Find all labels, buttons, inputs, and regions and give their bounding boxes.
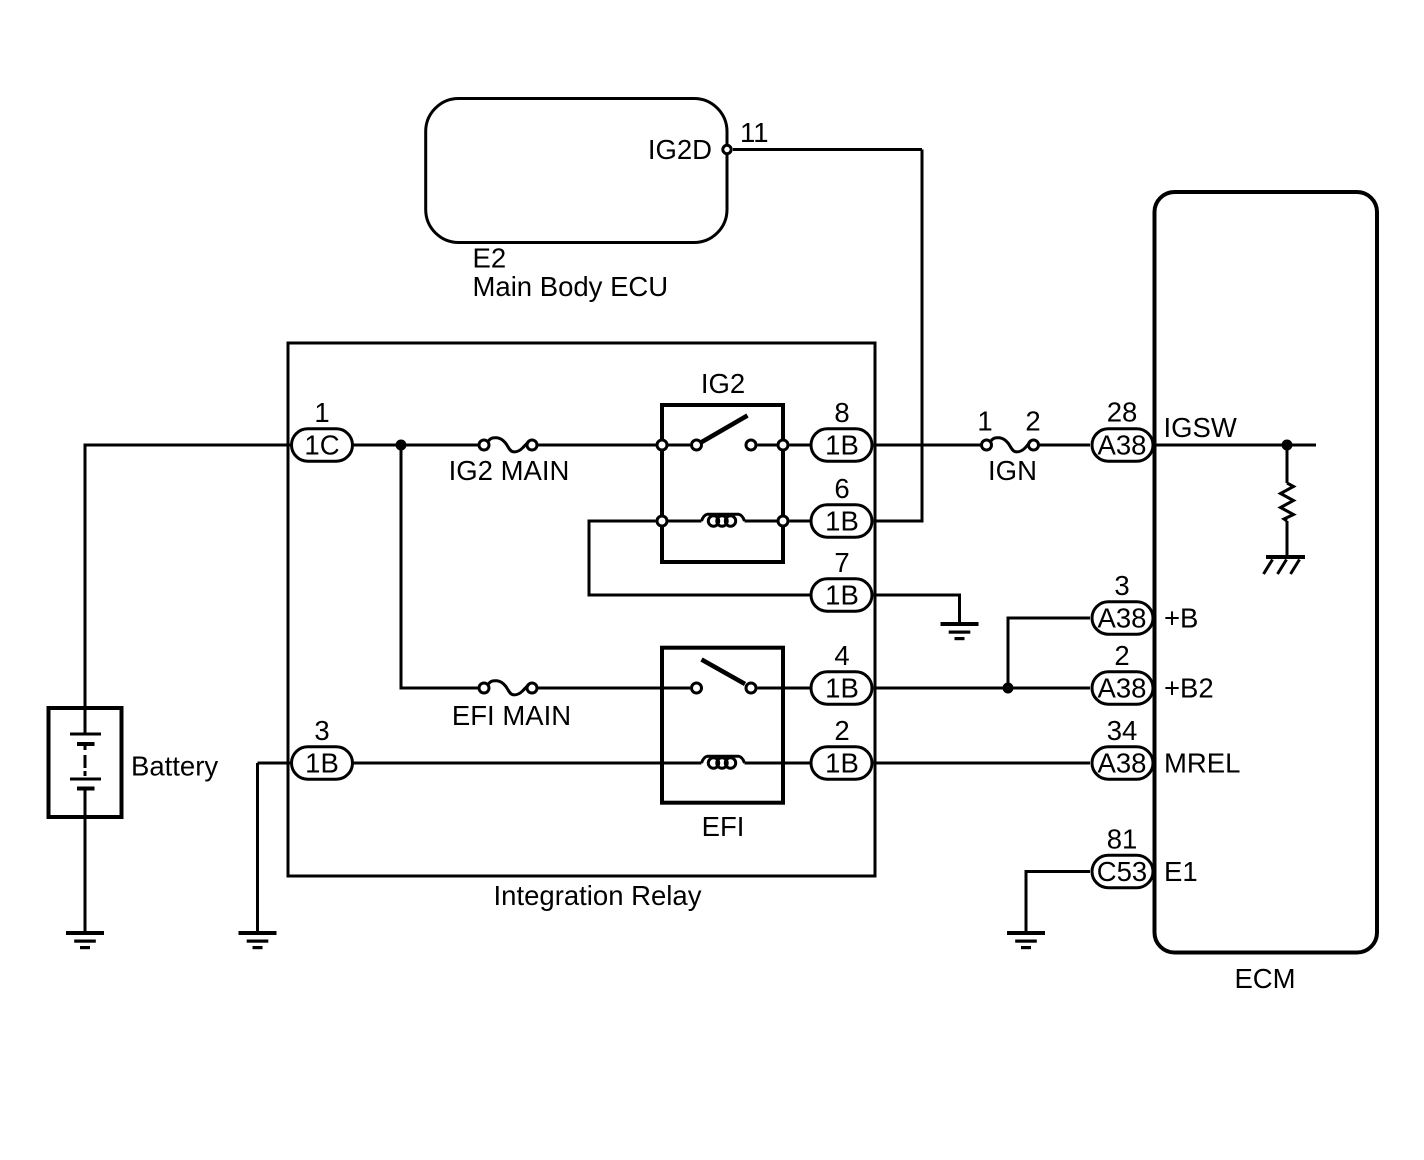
svg-text:A38: A38 [1098, 748, 1147, 779]
svg-text:E1: E1 [1164, 856, 1198, 887]
svg-text:IG2D: IG2D [648, 134, 712, 165]
svg-text:A38: A38 [1098, 430, 1147, 461]
svg-text:2: 2 [834, 715, 849, 746]
wire pin 3 to ground [256, 763, 259, 933]
junction node on IGSW wire [1282, 440, 1293, 451]
wire E1 to ground [1026, 872, 1090, 934]
ground below battery [66, 931, 104, 949]
Integration Relay box [288, 343, 875, 876]
wire pin 2 to MREL [874, 762, 1091, 765]
terminal circle IG2 coil left [657, 516, 667, 526]
pin oval A38 2 +B2 [1092, 672, 1153, 705]
pin oval A38 34 MREL [1092, 747, 1153, 780]
pin oval A38 3 +B [1092, 602, 1153, 635]
svg-text:4: 4 [834, 640, 849, 671]
svg-text:Integration Relay: Integration Relay [494, 880, 702, 911]
svg-text:MREL: MREL [1164, 748, 1240, 779]
svg-text:2: 2 [1025, 406, 1040, 437]
svg-text:EFI MAIN: EFI MAIN [452, 700, 571, 731]
coil EFI [702, 756, 745, 763]
battery cell dashes [84, 746, 87, 750]
wire EFI switch to pin 4 [758, 687, 811, 690]
svg-text:+B2: +B2 [1164, 673, 1214, 704]
wire IG2D pin 11 horizontal [733, 148, 922, 151]
wire IGN fuse to A38-28 [1039, 444, 1090, 447]
junction node at 1C branch [396, 440, 407, 451]
svg-text:1: 1 [314, 397, 329, 428]
wire pin 4 to +B2 with branch [874, 687, 1091, 690]
svg-text:1B: 1B [825, 430, 859, 461]
svg-text:+B: +B [1164, 603, 1198, 634]
wire coil left loop to pin 7 [589, 521, 811, 595]
ground for pin 7 [941, 622, 979, 640]
svg-text:1B: 1B [825, 673, 859, 704]
relay EFI box [662, 648, 783, 803]
pin oval A38 28 [1092, 429, 1153, 462]
fuse EFI MAIN [479, 683, 489, 693]
switch contact circles EFI [692, 683, 702, 693]
ground for E1 [1007, 931, 1045, 949]
wire IGSW inside ECM [1154, 444, 1316, 447]
svg-text:2: 2 [1114, 640, 1129, 671]
svg-text:1B: 1B [305, 748, 339, 779]
svg-text:3: 3 [314, 715, 329, 746]
fuse IG2 MAIN [479, 440, 489, 450]
pin oval C53 81 E1 [1092, 855, 1153, 888]
svg-text:1B: 1B [825, 580, 859, 611]
switch contact circles IG2 [692, 440, 702, 450]
svg-text:C53: C53 [1097, 856, 1147, 887]
svg-text:Main Body ECU: Main Body ECU [473, 271, 669, 302]
battery plate short top [77, 742, 95, 746]
svg-text:A38: A38 [1098, 603, 1147, 634]
pin oval 1B 6 [811, 505, 872, 538]
wire 1C to IG2 relay (with fuse gap) [353, 444, 479, 447]
wire fuse to EFI switch [538, 687, 691, 690]
pin oval 1B 7 [811, 579, 872, 612]
switch blade IG2 [700, 416, 748, 444]
svg-text:1: 1 [977, 406, 992, 437]
switch blade EFI [702, 660, 746, 685]
ECM box [1155, 192, 1378, 953]
svg-text:1B: 1B [825, 506, 859, 537]
svg-text:11: 11 [740, 117, 769, 148]
wire branch up to +B [1008, 618, 1090, 688]
terminal circle IG2 coil right [778, 516, 788, 526]
wire inside IG2 switch row [668, 444, 690, 447]
svg-text:Battery: Battery [131, 751, 218, 782]
wire pin 3 row through EFI coil [258, 762, 291, 765]
battery plate long top [70, 733, 101, 736]
wire junction to resistor [1286, 445, 1289, 483]
svg-text:IG2: IG2 [701, 368, 745, 399]
pin oval 1C 1 [292, 429, 353, 462]
svg-text:28: 28 [1107, 397, 1138, 428]
svg-text:IGSW: IGSW [1164, 412, 1237, 443]
pin oval 1B 2 [811, 747, 872, 780]
wire resistor to chassis ground [1286, 521, 1289, 557]
relay IG2 box [662, 405, 783, 562]
wire IG2D vertical down to pin 6 net [874, 150, 923, 522]
pin oval 1B 4 [811, 672, 872, 705]
svg-text:7: 7 [834, 547, 849, 578]
resistor inside ECM [1281, 483, 1294, 521]
terminal circle IG2 left switch [657, 440, 667, 450]
svg-text:34: 34 [1107, 715, 1138, 746]
connector E2 Main Body ECU box [426, 99, 727, 243]
svg-text:EFI: EFI [702, 811, 745, 842]
svg-text:1C: 1C [304, 430, 339, 461]
svg-text:IGN: IGN [988, 455, 1037, 486]
terminal circle IG2 right switch [778, 440, 788, 450]
pin oval 1B 3 [292, 747, 353, 780]
wire junction down to EFI MAIN [401, 445, 479, 688]
battery box [49, 708, 122, 817]
battery plate short bottom [77, 787, 95, 791]
wire IG2 coil row [668, 520, 702, 523]
wire pin 8 to IGN fuse [874, 444, 982, 447]
svg-text:6: 6 [834, 473, 849, 504]
pin oval 1B 8 [811, 429, 872, 462]
pin circle IG2D 11 [723, 145, 731, 153]
wire battery to connector 1C [85, 445, 291, 734]
svg-text:A38: A38 [1098, 673, 1147, 704]
svg-text:8: 8 [834, 397, 849, 428]
chassis ground inside ECM [1264, 555, 1306, 574]
svg-text:1B: 1B [825, 748, 859, 779]
wire pin 7 to ground [874, 595, 960, 624]
junction node +B branch [1003, 683, 1014, 694]
ground for pin 3 wire [239, 931, 277, 949]
fuse IGN [982, 440, 992, 450]
svg-text:IG2 MAIN: IG2 MAIN [449, 455, 570, 486]
svg-text:3: 3 [1114, 570, 1129, 601]
svg-text:ECM: ECM [1234, 963, 1295, 994]
svg-text:81: 81 [1107, 824, 1138, 855]
wire battery to ground [84, 790, 87, 933]
battery plate long bottom [70, 778, 101, 781]
coil IG2 [702, 514, 745, 521]
svg-text:E2: E2 [473, 243, 507, 274]
